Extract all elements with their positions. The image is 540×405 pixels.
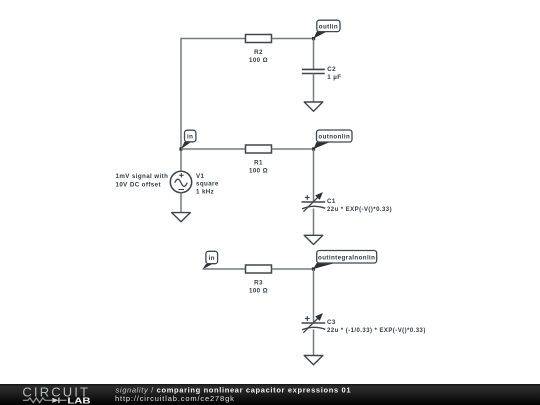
wire — [272, 268, 314, 270]
ground — [304, 356, 323, 365]
node outnonlin — [312, 130, 352, 151]
svg-text:http://circuitlab.com/ce278gk: http://circuitlab.com/ce278gk — [115, 394, 235, 403]
svg-text:R3: R3 — [254, 279, 263, 286]
resistor R2 — [246, 35, 272, 64]
svg-text:22u * (-1/0.33) * EXP(-V()*0.3: 22u * (-1/0.33) * EXP(-V()*0.33) — [327, 328, 426, 334]
node outintegralnonlin — [312, 251, 377, 271]
wire — [181, 148, 246, 150]
svg-text:V1: V1 — [196, 173, 205, 180]
svg-text:100 Ω: 100 Ω — [249, 57, 268, 64]
svg-text:1 kHz: 1 kHz — [196, 188, 214, 195]
wire — [313, 269, 315, 323]
svg-text:signality / comparing nonlinea: signality / comparing nonlinear capacito… — [116, 385, 352, 394]
resistor R1 — [246, 145, 272, 174]
capacitor C2 — [302, 66, 342, 81]
capacitor C3 — [302, 314, 426, 334]
wire — [313, 330, 315, 356]
wire — [313, 39, 315, 70]
svg-text:C2: C2 — [327, 66, 336, 73]
capacitor C1 — [302, 193, 393, 213]
svg-text:LAB: LAB — [67, 396, 90, 405]
node in — [179, 130, 196, 150]
voltage source V1 — [116, 171, 219, 195]
svg-text:in: in — [187, 133, 193, 140]
wire — [180, 192, 182, 212]
wire — [313, 209, 315, 236]
wire — [313, 74, 315, 103]
svg-text:1mV signal with: 1mV signal with — [116, 173, 169, 180]
resistor R3 — [246, 265, 272, 294]
wire — [180, 38, 182, 172]
svg-text:100 Ω: 100 Ω — [249, 287, 268, 294]
wire — [203, 268, 246, 270]
node in — [203, 251, 218, 269]
svg-text:100 Ω: 100 Ω — [249, 167, 268, 174]
svg-text:outlin: outlin — [319, 23, 338, 30]
wire — [272, 148, 314, 150]
svg-text:square: square — [196, 181, 219, 188]
ground — [172, 213, 191, 222]
wire — [181, 38, 246, 40]
node outlin — [312, 20, 340, 40]
svg-text:outintegralnonlin: outintegralnonlin — [318, 254, 375, 261]
svg-text:R1: R1 — [254, 159, 263, 166]
svg-text:C3: C3 — [327, 319, 336, 326]
ground — [304, 102, 323, 111]
wire — [272, 38, 314, 40]
svg-text:1 µF: 1 µF — [327, 74, 341, 81]
footer bar — [0, 384, 540, 405]
svg-text:22u * EXP(-V()*0.33): 22u * EXP(-V()*0.33) — [327, 207, 392, 213]
svg-text:C1: C1 — [327, 198, 336, 205]
svg-text:in: in — [209, 255, 215, 262]
svg-text:10V DC offset: 10V DC offset — [116, 182, 161, 189]
ground — [304, 235, 323, 244]
CircuitLab logo — [22, 384, 90, 405]
svg-text:outnonlin: outnonlin — [318, 133, 350, 140]
svg-text:R2: R2 — [254, 49, 263, 56]
wire — [313, 149, 315, 202]
